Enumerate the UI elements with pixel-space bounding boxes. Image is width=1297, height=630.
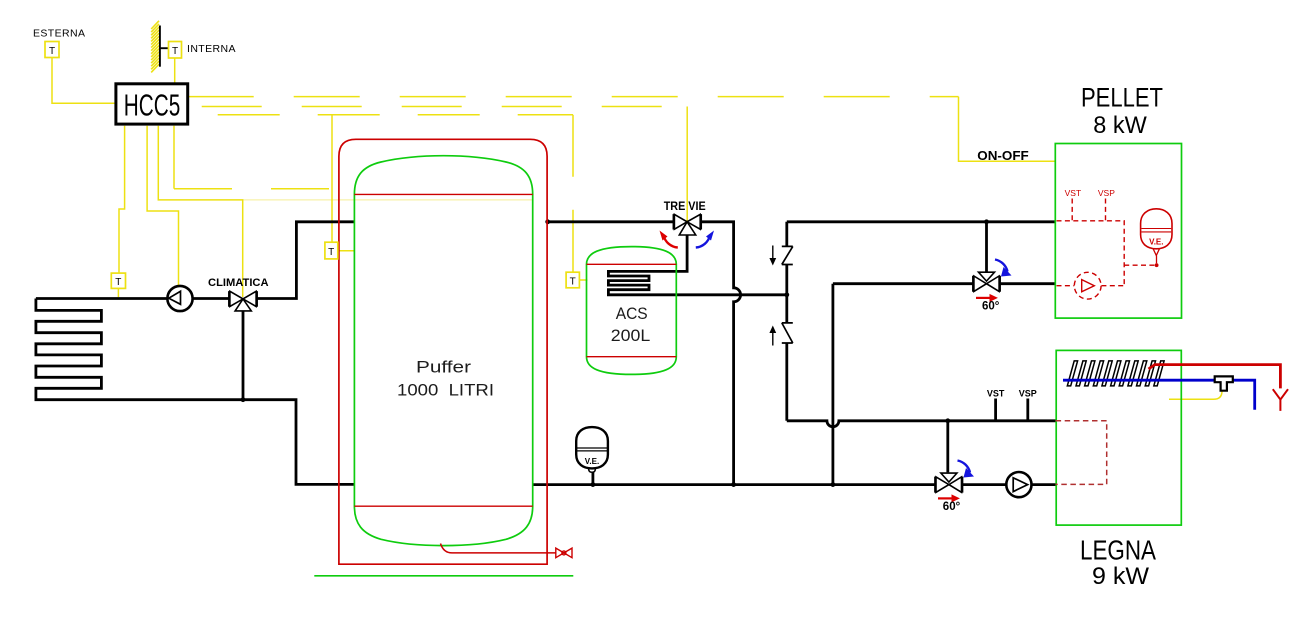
funnel Y (discharge) [1273,389,1288,411]
svg-text:VST: VST [1065,188,1082,198]
wire 1 HCC5 to pipe sensor T [119,126,125,273]
wire 3 HCC5 to CLIMATICA valve [158,126,242,297]
pipe TRE VIE to drop (with hop over coil return) [701,222,741,485]
ACS weld bottom [587,356,677,358]
wire HCC5 bus A (dashed to ON-OFF) [188,96,959,98]
pipe VST tick LEGNA [994,399,997,421]
wire INTERNA sensor to HCC5 [174,58,176,84]
pellet V.E. branch [1124,264,1156,266]
legna firebox (dashed red) [1056,421,1107,485]
svg-text:60°: 60° [943,501,961,513]
wall line [159,26,161,67]
expansion vessel V.E. (system) [576,427,608,472]
LEGNA boiler box [1056,350,1181,525]
valve 60 PELLET (3-way mixing) [973,272,999,292]
ACS tank body (green) [587,247,677,375]
svg-text:T: T [570,276,576,287]
arrow blue PELLET valve [995,260,1012,277]
svg-text:ESTERNA: ESTERNA [33,28,85,40]
svg-text:TRE VIE: TRE VIE [664,201,706,213]
node TRE VIE riser tee [731,482,736,487]
wire ACS sensor to tank [579,279,587,281]
node PELLET riser tee [831,482,836,487]
svg-text:VST: VST [987,389,1005,399]
arrow red PELLET valve [976,294,998,302]
svg-text:T: T [115,277,121,288]
puffer drain pipe (red) [441,544,556,553]
pipe puffer bottom to LEGNA valve [533,483,936,486]
pipe CLIMATICA bottom port to return [242,311,245,400]
svg-text:Puffer: Puffer [416,359,472,377]
pipe check-valve column [785,222,788,421]
pipe VSP tick LEGNA [1026,399,1029,421]
pump radiator circuit [167,286,192,311]
pipe supply to PELLET [787,220,1056,223]
pipe valve drop LEGNA [946,421,949,473]
wire VSP drop [1105,199,1107,221]
valve TRE VIE (3-way diverter) [674,214,701,235]
hot water line (red) [1149,365,1281,389]
sensor T INTERNA [169,42,236,59]
wire ESTERNA sensor to HCC5 [52,58,116,104]
wire puffer sensor to tank [338,250,355,252]
pipe CLIMATICA to puffer top [257,222,355,299]
wall hatch (internal wall) [151,21,159,73]
pipe LEGNA pump to boiler [1032,483,1056,486]
svg-text:ON-OFF: ON-OFF [977,149,1029,163]
arrow red LEGNA valve [938,494,960,502]
svg-text:1000 LITRI: 1000 LITRI [397,382,494,400]
svg-text:CLIMATICA: CLIMATICA [208,277,269,289]
puffer tank body (green) [354,156,532,546]
legna safety coil [1067,361,1164,386]
wire VST drop [1071,199,1073,221]
expansion vessel V.E. (pellet, red) [1141,209,1172,263]
pipe radiator serpentine and return to puffer [36,299,355,485]
svg-text:HCC5: HCC5 [124,88,181,123]
node V.E. tee [591,482,596,487]
check valve bottom (flow up) [782,323,793,343]
pipe LEGNA valve to pump [962,483,1006,486]
check valve top (flow down) [782,246,793,264]
sensor T radiator pipe [111,273,125,288]
svg-text:PELLET: PELLET [1081,82,1163,112]
pipe PELLET return horizontal [833,282,1055,285]
pellet pump (dashed circle) [1074,272,1101,299]
svg-text:T: T [49,46,55,57]
node LEGNA valve tee [945,418,950,423]
pipe PELLET return riser [832,284,835,485]
ground line (green) [314,575,573,577]
wall tick to INTERNA sensor [160,47,169,49]
svg-text:200L: 200L [611,326,651,345]
wire 2 HCC5 to pump [147,126,178,286]
svg-text:ACS: ACS [616,304,648,323]
svg-text:V.E.: V.E. [1149,238,1163,247]
pipe puffer top to TRE VIE [548,220,674,223]
wire HCC5 bus B (dashed to TRE VIE) [188,106,688,108]
pipe pump to CLIMATICA [193,297,230,300]
arrow red TRE VIE [660,231,678,248]
wire TRE VIE drop [686,107,688,222]
sensor T puffer [325,242,338,259]
node coil return tee [784,292,789,297]
node PELLET valve tee [984,219,989,224]
wire ACS sensor drop (dashed) [572,115,574,272]
faucet [1215,376,1233,390]
svg-text:8 kW: 8 kW [1093,112,1147,139]
node puffer top outlet [545,219,550,224]
valve 60 LEGNA (3-way mixing) [936,473,963,493]
drain valve [556,548,572,558]
pipe TRE VIE bottom to ACS coil [608,233,786,295]
arrow blue TRE VIE [696,231,714,248]
wire HCC5 bus C (dashed to ACS sensor) [188,114,573,116]
ACS weld top [587,263,677,265]
pipe V.E. stem [592,472,595,485]
pump LEGNA circuit [1006,472,1031,497]
pellet pump rotor [1082,280,1095,292]
pipe valve drop PELLET [985,222,988,273]
wire pipe sensor T stem [117,288,119,297]
arrow blue LEGNA valve [958,461,975,478]
arrow check valve top [772,246,774,260]
puffer insulation shell (red) [339,139,547,564]
pellet internal supply piping (dashed red) [1057,221,1125,286]
wire puffer sensor drop [331,115,333,242]
wire 4 HCC5 to puffer sensor (dashed) [173,126,175,189]
pipe to LEGNA supply (hop over return riser) [787,421,1056,427]
puffer weld line bottom [354,505,532,507]
arrow check valve bottom [772,332,774,346]
node CLIMATICA return tee [241,397,246,402]
svg-text:VSP: VSP [1019,389,1037,399]
cold water line (blue) [1063,380,1255,410]
svg-text:9 kW: 9 kW [1092,563,1150,590]
svg-text:LEGNA: LEGNA [1080,535,1157,566]
pipe radiator flow to pump [36,297,167,300]
pellet internal return piping [1057,285,1125,287]
svg-text:V.E.: V.E. [585,457,599,466]
wire LEGNA faucet control [1169,391,1222,399]
wire faint continuation to puffer [243,199,532,201]
svg-text:T: T [172,46,178,57]
wire ON-OFF drop to PELLET [959,97,1056,162]
sensor T ESTERNA [33,28,85,58]
svg-text:T: T [328,247,334,258]
valve CLIMATICA (3-way mixing) [229,291,256,311]
puffer weld line top [354,193,532,195]
svg-text:60°: 60° [982,301,1000,313]
svg-text:VSP: VSP [1098,188,1115,198]
svg-text:INTERNA: INTERNA [187,43,236,55]
sensor T ACS [566,272,579,288]
controller HCC5 [116,84,188,124]
node pellet V.E. [1155,263,1159,267]
PELLET boiler box [1055,144,1181,319]
